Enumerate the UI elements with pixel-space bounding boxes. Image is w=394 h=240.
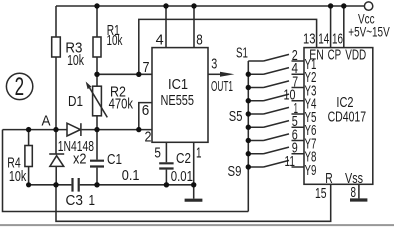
label CD4017 (328, 108, 366, 125)
label CP (328, 46, 342, 63)
svg-text:11: 11 (285, 152, 295, 170)
pin 14 stem CP (330, 6, 332, 48)
pin 8 label (196, 31, 203, 48)
label S1 (236, 45, 248, 62)
pin 6 label (142, 102, 150, 119)
label R3 value (67, 51, 84, 68)
wire pin7 net (97, 73, 152, 75)
label EN (309, 45, 324, 62)
label NE555 (161, 91, 194, 108)
label Y3 (305, 82, 317, 99)
pin 15 label (315, 184, 327, 201)
svg-text:S9: S9 (228, 162, 242, 179)
switch S4 row (248, 94, 304, 101)
resistor R2 variable (86, 74, 108, 129)
svg-text:3: 3 (211, 55, 217, 72)
pin 9 Y8 label (292, 139, 298, 156)
label S5 (229, 107, 243, 124)
switch S3 row (248, 81, 304, 88)
label D1 (68, 92, 83, 109)
label Y2 (305, 69, 317, 86)
arrow OUT1 (220, 72, 234, 77)
svg-text:A: A (42, 113, 51, 130)
junction dots switch common (246, 72, 251, 77)
pin 5 Y6 label (292, 112, 298, 129)
capacitor C2 (159, 142, 173, 185)
svg-text:CP: CP (328, 46, 342, 63)
label C3 (66, 192, 83, 209)
svg-text:0.1: 0.1 (122, 166, 140, 183)
label S9 (228, 162, 242, 179)
pin 16 label (332, 30, 343, 47)
switch S9 row (248, 160, 304, 167)
label C1 value (122, 166, 140, 183)
IC2 CD4017 box (304, 48, 373, 185)
label R2 (110, 84, 126, 100)
svg-text:S1: S1 (236, 45, 248, 62)
svg-text:S5: S5 (229, 107, 243, 124)
svg-text:7: 7 (143, 58, 150, 75)
svg-text:15: 15 (315, 184, 327, 201)
resistor R3 (52, 6, 61, 130)
label Y9 (305, 162, 317, 179)
svg-text:2: 2 (15, 73, 24, 101)
switch S1 row (248, 54, 304, 61)
capacitor C3 (73, 178, 79, 192)
pin 14 label (318, 30, 329, 47)
label IC2 (336, 93, 353, 110)
label C1 (107, 150, 122, 167)
svg-text:C1: C1 (107, 150, 122, 167)
svg-text:4: 4 (156, 32, 164, 48)
svg-text:C3: C3 (66, 192, 83, 209)
ground under IC1 pin1 (185, 199, 203, 202)
svg-text:5: 5 (154, 144, 161, 161)
svg-text:1: 1 (196, 144, 202, 161)
svg-text:C2: C2 (176, 150, 191, 167)
pin 3 output lead (208, 73, 222, 75)
switch S8 row (248, 147, 304, 154)
label IC1 (168, 75, 188, 92)
label Y8 (305, 149, 317, 166)
pin 13 label (303, 30, 316, 47)
svg-text:CD4017: CD4017 (328, 108, 366, 125)
IC1 NE555 box (152, 48, 208, 143)
pin 3 label (211, 55, 217, 72)
label R1 value (107, 32, 123, 49)
label Vss (345, 169, 363, 186)
pin 2 label (145, 127, 152, 144)
label R4 (7, 154, 20, 171)
svg-text:NE555: NE555 (161, 91, 194, 108)
diode D2 vertical (49, 130, 64, 185)
wire lower net (29, 184, 194, 186)
svg-text:Y9: Y9 (305, 162, 317, 179)
switch common bus (247, 61, 249, 212)
pin 16 stem VDD (343, 6, 345, 48)
label R3 (65, 40, 82, 57)
svg-text:1: 1 (89, 191, 96, 208)
junction dots pin7 net (94, 72, 99, 77)
resistor R4 (25, 130, 32, 185)
pin 5 label (154, 144, 161, 161)
svg-text:D1: D1 (68, 92, 83, 109)
pin 1 ground lead (193, 142, 195, 198)
pin 1 Y5 label (294, 99, 299, 116)
label Y6 (305, 122, 317, 139)
pin 8 stem (193, 6, 195, 48)
junction dots node A wire (26, 127, 31, 132)
label Y7 (305, 135, 317, 152)
svg-text:OUT1: OUT1 (211, 77, 233, 94)
svg-text:VDD: VDD (345, 46, 366, 63)
label Y1 (305, 56, 317, 73)
pin 2 Y1 label (292, 46, 298, 63)
pin 4 stem (165, 6, 167, 48)
label Y4 (305, 95, 317, 112)
label x2 (73, 150, 87, 167)
svg-text:8: 8 (351, 184, 357, 201)
label R reset (325, 169, 332, 186)
svg-text:x2: x2 (73, 150, 87, 167)
figure number 2 (15, 73, 24, 101)
switch S7 row (248, 134, 304, 141)
label VDD (345, 46, 366, 63)
svg-text:8: 8 (196, 31, 203, 48)
svg-text:IC1: IC1 (168, 75, 188, 92)
wire feedback to pin 15 (56, 184, 331, 221)
switch S5 row (248, 107, 304, 114)
pin 8 Vss ground lead (358, 184, 360, 198)
ground under IC2 pin8 (350, 198, 367, 201)
pin 1 label (196, 144, 202, 161)
label C3 value (89, 191, 96, 208)
wire top Vcc rail (56, 5, 364, 7)
svg-text:14: 14 (318, 30, 329, 47)
svg-text:2: 2 (145, 127, 152, 144)
svg-text:6: 6 (142, 102, 150, 119)
label OUT1 (211, 77, 233, 94)
junction dots top rail (94, 3, 99, 8)
pin 10 Y4 label (284, 86, 296, 103)
svg-text:10k: 10k (9, 167, 27, 184)
label R1 (107, 21, 120, 39)
diode D1 horizontal (67, 123, 81, 136)
svg-text:10k: 10k (107, 32, 123, 49)
label R4 value (9, 167, 27, 184)
svg-text:0.01: 0.01 (171, 167, 193, 184)
svg-text:470k: 470k (109, 95, 134, 112)
label 1N4148 (58, 137, 94, 154)
svg-text:13: 13 (303, 30, 316, 47)
label C2 (176, 150, 191, 167)
pin 4 label (156, 32, 164, 48)
capacitor C1 (90, 130, 104, 185)
label +5V~15V (348, 24, 390, 40)
svg-text:+5V~15V: +5V~15V (348, 24, 390, 40)
switch S2 row (248, 68, 304, 75)
resistor R1 (93, 6, 101, 74)
terminal Vcc circle (364, 2, 372, 10)
svg-text:16: 16 (332, 30, 343, 47)
wire left feedback loop to switch common (3, 130, 249, 212)
pin 4 Y2 label (292, 60, 299, 77)
pin 6 stub (139, 103, 152, 130)
wire node A horizontal (3, 129, 153, 131)
label Y5 (305, 109, 317, 126)
switch S6 row (248, 121, 304, 128)
wire EN net from pin13 to R1-R2 junction (139, 19, 317, 74)
pin 11 Y9 label (285, 152, 295, 170)
pin 8 label IC2 (351, 184, 357, 201)
svg-text:10k: 10k (67, 51, 84, 68)
page bottom border (0, 224, 394, 226)
label R2 value (109, 95, 134, 112)
label C2 value (171, 167, 193, 184)
pin 7 Y3 label (292, 72, 298, 89)
junction dots lower net (26, 182, 31, 187)
figure label circle (6, 73, 32, 99)
node A label (42, 113, 51, 130)
pin 7 label (143, 58, 150, 75)
pin 6 Y7 label (292, 126, 298, 143)
label Vcc (358, 11, 375, 27)
